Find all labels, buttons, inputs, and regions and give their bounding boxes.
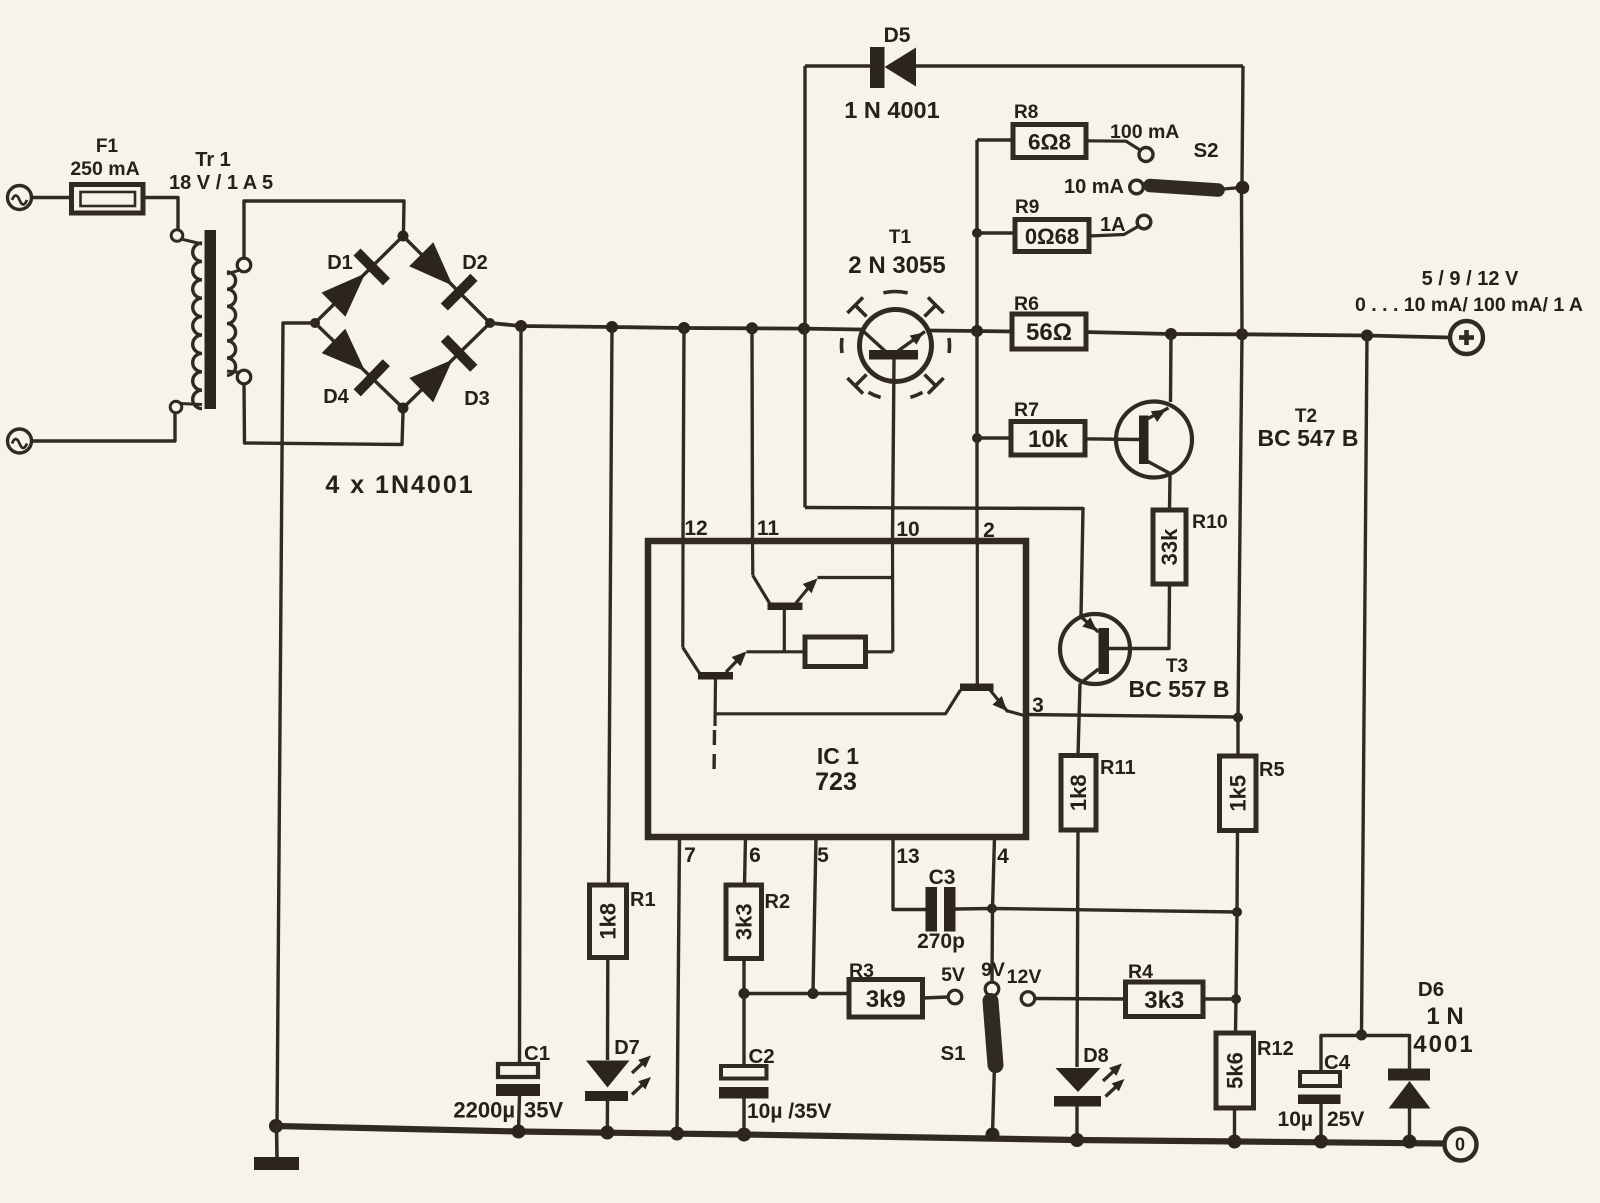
wire bridge diamond: [315, 236, 490, 408]
IC internal transistor Q-A: [683, 541, 747, 726]
label D7: [614, 1037, 640, 1059]
IC internal transistor Q-C: [960, 541, 1026, 716]
svg-text:R4: R4: [1128, 961, 1153, 983]
node D8 bus: [1070, 1133, 1084, 1147]
wire S2 to rail: [1240, 192, 1244, 334]
resistor R10: [1153, 510, 1186, 584]
wire R1 to D7: [606, 958, 610, 1061]
wire pin7 to bus: [677, 837, 680, 1134]
svg-text:C3: C3: [929, 866, 956, 889]
wire pin6 column: [745, 837, 746, 885]
wire R11 to D8: [1077, 830, 1078, 1067]
transistor T1: [841, 292, 949, 398]
svg-text:T3: T3: [1166, 656, 1188, 677]
svg-text:5V: 5V: [941, 964, 965, 986]
wire fuse to primary top: [143, 198, 178, 231]
wire rail to C1: [520, 326, 522, 1064]
label R1: [630, 889, 656, 911]
node C1 bus: [512, 1125, 526, 1139]
node pin3 R5: [1233, 713, 1243, 723]
svg-text:2: 2: [983, 519, 995, 542]
label R10: [1192, 511, 1228, 533]
wire R8R9 left column: [975, 140, 978, 331]
value 1N (D6): [1426, 1003, 1463, 1030]
wire R3 to 5V: [923, 997, 949, 998]
pin 3: [1032, 694, 1044, 717]
resistor R3: [849, 980, 923, 1018]
svg-text:R6: R6: [1014, 293, 1039, 315]
value BC 557 B: [1129, 676, 1230, 702]
label R6: [1014, 293, 1039, 315]
svg-text:1k8: 1k8: [1066, 774, 1091, 811]
node S2 pivot: [1236, 181, 1250, 195]
transformer Tr1: [170, 230, 251, 413]
resistor R7: [1011, 422, 1085, 456]
svg-text:10µ: 10µ: [1278, 1108, 1313, 1131]
node rail T2: [1165, 328, 1177, 340]
fuse F1: [72, 185, 144, 214]
value 100 mA: [1110, 121, 1179, 143]
diode D2: [409, 242, 474, 307]
resistor R9: [1015, 220, 1089, 252]
svg-text:10: 10: [896, 518, 919, 541]
node rail pin12: [678, 322, 690, 334]
svg-text:C4: C4: [1324, 1051, 1351, 1074]
AC input terminal (bottom): [8, 429, 32, 453]
wire D6 to bus: [1408, 1109, 1411, 1142]
svg-text:R7: R7: [1014, 399, 1039, 421]
label D3: [464, 388, 490, 410]
value 1N4001 (D5): [844, 97, 939, 123]
svg-text:11: 11: [757, 517, 780, 540]
svg-text:1k5: 1k5: [1225, 775, 1250, 812]
node C4 bus: [1314, 1135, 1328, 1149]
resistor R6: [1012, 314, 1086, 349]
transistor T2: [1116, 402, 1192, 478]
wire T1 base to IC pin10: [893, 360, 895, 541]
wire to R8: [977, 138, 1013, 141]
wire C1 to bus: [519, 1096, 520, 1131]
wire AC top to fuse: [32, 196, 72, 199]
wire D8 to bus: [1075, 1107, 1078, 1141]
wire D5 top right: [916, 64, 1243, 67]
contact 12V: [1021, 992, 1035, 1006]
wire pin5 column: [813, 837, 816, 994]
resistor R11: [1061, 756, 1096, 831]
svg-text:6: 6: [749, 844, 761, 867]
node R9 tap: [972, 228, 982, 238]
wire pin6 R2 node to R3: [744, 992, 849, 995]
svg-text:1 N 4001: 1 N 4001: [844, 97, 939, 123]
wire C3 to node: [956, 907, 993, 911]
wire rail to C4 D6: [1362, 336, 1368, 1036]
node R12 bus: [1228, 1135, 1242, 1149]
pin 5: [817, 844, 829, 867]
svg-text:7: 7: [684, 844, 696, 867]
node D7 bus: [600, 1126, 614, 1140]
svg-text:0Ω68: 0Ω68: [1025, 224, 1079, 249]
node rail C4: [1361, 330, 1373, 342]
svg-text:33k: 33k: [1157, 528, 1182, 565]
svg-text:R10: R10: [1192, 511, 1228, 533]
svg-text:2200µ: 2200µ: [453, 1098, 515, 1123]
svg-text:100 mA: 100 mA: [1110, 121, 1179, 143]
svg-text:12: 12: [684, 517, 707, 540]
value 723: [815, 768, 857, 796]
label C1: [524, 1042, 550, 1065]
svg-text:1A: 1A: [1100, 214, 1126, 236]
value 250 mA: [70, 158, 139, 180]
svg-text:5 / 9 / 12 V: 5 / 9 / 12 V: [1422, 268, 1519, 290]
svg-text:12V: 12V: [1007, 966, 1042, 988]
value 270p: [917, 930, 965, 953]
svg-text:1 N: 1 N: [1426, 1003, 1463, 1030]
op-amp IC1 box: [648, 541, 1026, 837]
svg-text:R9: R9: [1015, 197, 1039, 218]
node D6 bus: [1403, 1135, 1417, 1149]
wire D5 left vertical: [803, 66, 806, 508]
node C3 pin4: [987, 904, 997, 914]
node rail D5: [798, 323, 810, 335]
contact 5V: [948, 990, 962, 1004]
svg-text:6Ω8: 6Ω8: [1028, 130, 1071, 155]
svg-text:R2: R2: [765, 891, 791, 913]
wire R12 to bus: [1233, 1108, 1236, 1142]
wire pin4 to 9V: [992, 837, 995, 982]
wire R7 to T2 base: [1083, 437, 1139, 441]
svg-text:1k8: 1k8: [596, 903, 621, 940]
wire pin11 column: [750, 328, 754, 541]
label D2: [462, 252, 488, 274]
svg-text:D6: D6: [1418, 978, 1444, 1001]
wire pin3 to R5: [1026, 715, 1238, 718]
diode D6: [1388, 1069, 1431, 1109]
node C4 D6: [1356, 1030, 1367, 1041]
value 4001 (D6): [1413, 1031, 1474, 1058]
wire R8 to 100mA contact: [1086, 141, 1140, 150]
svg-text:10k: 10k: [1028, 426, 1069, 453]
AC input terminal (top): [8, 186, 32, 210]
label R9: [1015, 197, 1039, 218]
wire 0V bus: [276, 1126, 1444, 1144]
label 5V: [941, 964, 965, 986]
capacitor C3: [926, 887, 956, 932]
svg-text:13: 13: [896, 845, 919, 868]
wire D5 top left: [805, 64, 871, 67]
node rail S2: [1236, 328, 1248, 340]
pin 10: [896, 518, 919, 541]
IC internal transistor Q-B: [753, 541, 894, 652]
svg-text:C2: C2: [749, 1045, 775, 1068]
svg-text:250 mA: 250 mA: [70, 158, 139, 180]
wire R10 to T3 base: [1109, 584, 1170, 649]
label R12: [1257, 1038, 1294, 1060]
node bridge left: [310, 318, 320, 328]
capacitor C2: [719, 1066, 769, 1099]
node R4 right: [1231, 994, 1241, 1004]
diode D1: [322, 252, 387, 317]
wire node to C2: [742, 994, 745, 1067]
label D5: [884, 24, 911, 47]
wire T3 collector to R11: [1078, 684, 1080, 757]
svg-text:D1: D1: [327, 252, 353, 274]
svg-text:D7: D7: [614, 1037, 640, 1059]
label R11: [1100, 757, 1136, 779]
wire rail to pin3 node: [1238, 334, 1242, 717]
wire C3 node to R4 node: [1236, 912, 1237, 999]
svg-text:D5: D5: [884, 24, 911, 47]
svg-text:T2: T2: [1295, 406, 1317, 427]
node rail pin11: [746, 322, 758, 334]
wire R4 node to R12: [1234, 999, 1238, 1033]
label D4: [323, 386, 349, 408]
wire unreg to T3 emitter: [805, 508, 1083, 617]
wire C4 to bus: [1319, 1104, 1322, 1141]
label D6: [1418, 978, 1444, 1001]
svg-text:D8: D8: [1083, 1045, 1109, 1067]
switch S1: [991, 1001, 996, 1133]
value 10µ: [1278, 1108, 1313, 1131]
IC internal wire to output stage: [715, 690, 961, 714]
svg-text:R1: R1: [630, 889, 656, 911]
svg-text:Tr 1: Tr 1: [195, 149, 231, 171]
capacitor C4: [1298, 1072, 1341, 1104]
resistor R12: [1216, 1033, 1254, 1108]
label D1: [327, 252, 353, 274]
pin 7: [684, 844, 696, 867]
svg-text:S1: S1: [940, 1042, 965, 1065]
terminal +: [1450, 321, 1483, 354]
wire pin3 node to R5: [1236, 718, 1239, 757]
LED D8: [1054, 1064, 1125, 1107]
svg-text:56Ω: 56Ω: [1026, 319, 1072, 346]
wire D7 to bus: [606, 1100, 610, 1133]
value 2200µ: [453, 1098, 515, 1123]
terminal 0: [1445, 1129, 1477, 1161]
svg-text:0: 0: [1455, 1135, 1465, 1155]
contact 100mA: [1139, 148, 1153, 162]
label R5: [1259, 759, 1285, 781]
value BC 547 B: [1258, 425, 1359, 451]
resistor R2: [726, 885, 762, 959]
wire R4 to column: [1203, 997, 1236, 1000]
svg-text:R11: R11: [1100, 757, 1136, 779]
wire C2 to bus: [742, 1099, 745, 1135]
label C3: [929, 866, 956, 889]
svg-text:3k3: 3k3: [731, 903, 756, 940]
wire R5 to C3 node: [1235, 831, 1239, 913]
diode D5: [870, 47, 916, 88]
node R2 R3: [739, 988, 750, 999]
node pin5: [808, 988, 819, 999]
label 12V: [1007, 966, 1042, 988]
label R4: [1128, 961, 1153, 983]
wire R9 to 1A contact: [1089, 227, 1138, 237]
node S1 bus: [986, 1128, 1000, 1142]
label T3: [1166, 656, 1188, 677]
label R8: [1014, 102, 1038, 123]
switch S2: [1130, 180, 1241, 194]
label F1: [96, 136, 119, 157]
node C2 bus: [737, 1128, 751, 1142]
svg-text:BC 557 B: BC 557 B: [1129, 676, 1230, 702]
wire T2 emitter up: [1169, 334, 1173, 402]
label R2: [765, 891, 791, 913]
value 2N3055: [848, 252, 945, 279]
svg-text:9V: 9V: [981, 959, 1005, 981]
svg-text:18 V / 1 A 5: 18 V / 1 A 5: [169, 172, 273, 194]
wire main DC rail: [490, 323, 1451, 338]
svg-text:R5: R5: [1259, 759, 1285, 781]
wire AC bottom to transformer primary: [32, 413, 176, 441]
wire pin13 to C3: [893, 837, 926, 910]
svg-text:R3: R3: [849, 960, 874, 982]
svg-text:BC 547 B: BC 547 B: [1258, 425, 1359, 451]
ground: [254, 1119, 299, 1170]
svg-text:0 . . . 10 mA/ 100 mA/ 1 A: 0 . . . 10 mA/ 100 mA/ 1 A: [1355, 294, 1583, 316]
value 10µ /35V: [747, 1100, 832, 1123]
label R3: [849, 960, 874, 982]
wire R2 to node: [742, 959, 745, 994]
svg-text:R12: R12: [1257, 1038, 1294, 1060]
resistor R8: [1013, 125, 1086, 158]
label S2: [1193, 139, 1218, 162]
wire bridge left to ground bus: [277, 323, 315, 1126]
pin 4: [997, 845, 1009, 868]
resistor R4: [1126, 982, 1204, 1017]
svg-text:723: 723: [815, 768, 857, 796]
pin 6: [749, 844, 761, 867]
value 35V: [524, 1098, 563, 1123]
svg-text:R8: R8: [1014, 102, 1038, 123]
svg-text:D4: D4: [323, 386, 349, 408]
pin 2: [983, 519, 995, 542]
svg-text:5k6: 5k6: [1222, 1052, 1247, 1089]
diode D4: [322, 329, 387, 393]
capacitor C1: [496, 1064, 540, 1096]
node rail R1: [606, 321, 618, 333]
node bridge right: [485, 318, 495, 328]
resistor R1: [590, 885, 627, 958]
svg-text:270p: 270p: [917, 930, 965, 953]
wire T2 collector down: [1168, 475, 1172, 510]
pin 13: [896, 845, 919, 868]
label IC 1: [817, 743, 859, 769]
svg-text:4 x 1N4001: 4 x 1N4001: [325, 471, 474, 499]
node bridge top: [398, 231, 409, 242]
svg-text:T1: T1: [889, 227, 912, 248]
svg-text:C1: C1: [524, 1042, 550, 1065]
contact 9V: [985, 982, 999, 996]
svg-text:4: 4: [997, 845, 1009, 868]
resistor R5: [1220, 756, 1257, 831]
wire secondary bottom to bridge: [244, 384, 403, 445]
pin 12: [684, 517, 707, 540]
LED D7: [585, 1056, 651, 1102]
node rail R8R9: [971, 325, 983, 337]
svg-text:4001: 4001: [1413, 1031, 1474, 1058]
label R7: [1014, 399, 1039, 421]
pin 11: [757, 517, 780, 540]
svg-text:S2: S2: [1193, 139, 1218, 162]
label 9V: [981, 959, 1005, 981]
svg-text:2 N 3055: 2 N 3055: [848, 252, 945, 279]
label C2: [749, 1045, 775, 1068]
label output currents: [1355, 294, 1583, 316]
label Tr 1: [195, 149, 231, 171]
svg-text:10 mA: 10 mA: [1064, 176, 1124, 198]
svg-text:35V: 35V: [524, 1098, 563, 1123]
IC internal dashed lead: [712, 730, 716, 778]
value 10 mA: [1064, 176, 1124, 198]
label T1: [889, 227, 912, 248]
svg-text:3k3: 3k3: [1144, 987, 1184, 1014]
wire C3 node to R5 column: [992, 909, 1237, 913]
wire pin12 column: [683, 328, 684, 541]
IC internal resistor: [747, 637, 893, 667]
node C3 right: [1232, 907, 1242, 917]
svg-text:IC 1: IC 1: [817, 743, 859, 769]
svg-text:D3: D3: [464, 388, 490, 410]
node pin7 bus: [670, 1127, 684, 1141]
wire right vertical to S2: [1242, 66, 1243, 181]
wire rail to R1: [609, 327, 613, 885]
node R7 tap: [972, 433, 982, 443]
node bridge bottom: [398, 403, 409, 414]
wire pin10 internal: [891, 541, 894, 652]
svg-text:10µ /35V: 10µ /35V: [747, 1100, 832, 1123]
wire C4 D6 horizontal: [1321, 1036, 1410, 1073]
wire to R9: [977, 231, 1015, 234]
svg-text:3k9: 3k9: [866, 986, 906, 1013]
wire secondary top to bridge: [244, 201, 404, 259]
diode D3: [409, 338, 473, 402]
label S1: [940, 1042, 965, 1065]
wire 12V to R4: [1035, 997, 1126, 1001]
label D8: [1083, 1045, 1109, 1067]
contact 1A: [1137, 215, 1151, 229]
value 4 x 1N4001: [325, 471, 474, 499]
svg-text:5: 5: [817, 844, 829, 867]
wire pin2 column: [975, 331, 978, 540]
svg-text:F1: F1: [96, 136, 119, 157]
wire to R7: [977, 436, 1012, 439]
node rail C1: [515, 320, 527, 332]
value 18 V / 1 A 5: [169, 172, 273, 194]
value 25V: [1327, 1108, 1364, 1131]
label T2: [1295, 406, 1317, 427]
svg-text:D2: D2: [462, 252, 488, 274]
value 1A: [1100, 214, 1126, 236]
svg-text:25V: 25V: [1327, 1108, 1364, 1131]
transistor T3: [1060, 614, 1130, 684]
label output voltages: [1422, 268, 1519, 290]
label C4: [1324, 1051, 1351, 1074]
